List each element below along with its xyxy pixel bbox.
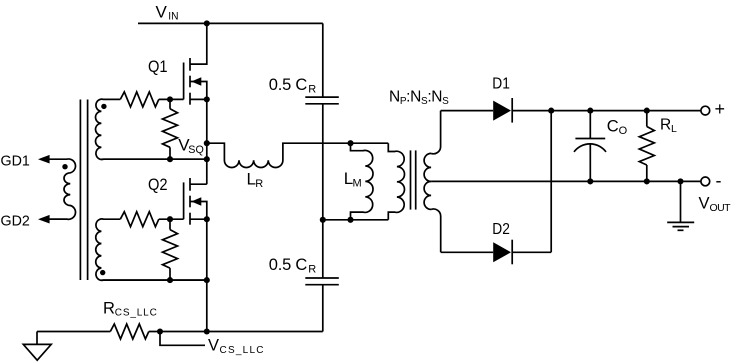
junction RL bottom — [644, 178, 650, 184]
phase dot Q2 winding — [100, 270, 105, 275]
transformer T1 core — [80, 100, 87, 281]
svg-text:0.5 C: 0.5 C — [269, 76, 308, 94]
junction L_M top — [347, 140, 353, 146]
T1 secondary winding (Q2) — [96, 219, 207, 280]
svg-text:R: R — [308, 263, 316, 275]
capacitor CR bottom — [305, 220, 339, 332]
wire Q2 gate-drive return — [101, 279, 206, 281]
svg-text:C: C — [607, 118, 619, 136]
junction Q2 source — [204, 216, 210, 222]
svg-text:V: V — [208, 337, 219, 355]
T1 secondary winding (Q1) — [96, 99, 207, 159]
wire VCS tap — [160, 332, 205, 346]
svg-text:D1: D1 — [492, 76, 510, 93]
svg-text:Q2: Q2 — [148, 176, 168, 194]
svg-text:OUT: OUT — [710, 202, 731, 214]
diode D2 — [493, 240, 512, 265]
svg-text:GD2: GD2 — [1, 212, 30, 229]
svg-text:V: V — [156, 3, 168, 22]
svg-text:IN: IN — [168, 11, 178, 23]
wire D2 cathode — [512, 251, 551, 253]
junction VCS tap — [157, 328, 163, 334]
wire CS rail — [37, 331, 110, 333]
junction V_IN / Q1 drain — [204, 20, 210, 26]
transformer T2 secondary — [424, 111, 441, 253]
resistor Q2 gate series — [120, 212, 159, 227]
wire Q2 source drop — [206, 219, 208, 331]
wire half-bridge rail — [206, 99, 208, 184]
ground input — [23, 332, 51, 361]
wire CS rail right — [149, 331, 323, 333]
wire primary bottom — [323, 219, 389, 221]
wire secondary to D1 — [441, 110, 494, 112]
junction D1 cathode — [548, 108, 554, 114]
wire Q2 gate lead — [159, 218, 184, 220]
diode D1 — [493, 98, 512, 123]
transformer T2 primary — [388, 143, 404, 220]
svg-text:R: R — [660, 117, 671, 134]
svg-text:-: - — [716, 171, 722, 191]
svg-text:R: R — [103, 299, 115, 317]
svg-text:O: O — [619, 125, 628, 137]
wire Q1 drain — [190, 23, 207, 64]
junction L_M bottom — [347, 217, 353, 223]
capacitor CR top — [305, 23, 339, 219]
wire Q1 gate lead — [159, 98, 184, 100]
wire secondary to D2 — [441, 251, 494, 253]
wire resonant to primary — [351, 142, 389, 144]
resistor Q1 gate series — [120, 92, 159, 107]
transistor Q1 — [184, 58, 207, 105]
svg-text:D2: D2 — [492, 221, 510, 238]
svg-text:Q1: Q1 — [148, 58, 168, 76]
junction Q2 gate resistor — [167, 216, 173, 222]
svg-text:+: + — [715, 99, 726, 119]
wire plus rail — [512, 110, 701, 112]
junction CO top — [587, 108, 593, 114]
junction RL top — [644, 108, 650, 114]
junction CR rail / primary bottom — [320, 217, 326, 223]
resistor R_L — [646, 111, 648, 127]
junction output ground — [677, 178, 683, 184]
svg-text:0.5 C: 0.5 C — [269, 256, 308, 274]
junction Q1 source — [204, 96, 210, 102]
phase dot Q1 winding — [101, 104, 106, 109]
transistor Q2 — [184, 178, 207, 225]
transformer T2 core — [411, 150, 416, 209]
terminal plus — [701, 106, 710, 115]
inductor L_R — [207, 143, 351, 167]
wire cathode bus — [550, 111, 552, 253]
junction Q1 return / rail — [204, 156, 210, 162]
junction Q2 return / rail — [204, 277, 210, 283]
arrow GD1 — [38, 155, 50, 164]
svg-text:M: M — [353, 177, 362, 189]
inductor L_M — [351, 143, 374, 220]
junction CO bottom — [587, 178, 593, 184]
wire center tap (minus rail) — [431, 180, 701, 182]
arrow GD2 — [38, 215, 50, 224]
ground output — [667, 181, 694, 230]
junction Q2 resistor bottom — [167, 277, 173, 283]
node V_SQ junction — [204, 140, 210, 146]
resistor Q2 gate-source — [169, 219, 171, 229]
wire V_IN rail — [138, 22, 323, 24]
resistor Q1 gate-source — [169, 99, 171, 108]
svg-text:V: V — [699, 194, 710, 212]
junction Q2 source / CS rail — [204, 328, 210, 334]
svg-text:NP:NS:NS: NP:NS:NS — [389, 89, 449, 107]
svg-text:R: R — [308, 84, 316, 96]
svg-text:R: R — [255, 178, 263, 190]
svg-text:CS_LLC: CS_LLC — [115, 308, 157, 319]
junction Q1 resistor bottom — [167, 156, 173, 162]
wire Q1 gate-drive return — [101, 158, 206, 160]
phase dot GD winding — [62, 164, 67, 169]
svg-text:SQ: SQ — [188, 144, 204, 156]
terminal minus — [701, 177, 710, 186]
capacitor C_O — [574, 111, 606, 182]
junction Q1 gate resistor — [167, 96, 173, 102]
T1 primary winding (GD) — [44, 159, 75, 219]
svg-text:L: L — [671, 123, 677, 135]
svg-text:GD1: GD1 — [1, 152, 30, 169]
resistor R_CS_LLC — [110, 324, 149, 339]
